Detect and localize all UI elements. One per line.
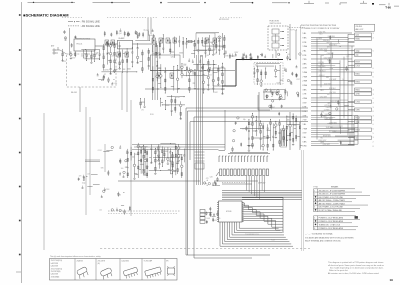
tuning dense core [137,146,181,175]
svg-text:R405: R405 [356,74,360,76]
svg-text:Q80: Q80 [171,57,174,59]
legend DIP package sketch [144,260,163,279]
svg-text:5 BL: 5 BL [303,33,307,35]
front end varicap parts [97,69,118,84]
svg-text:EACH TERMINAL AND CHASSIS GROU: EACH TERMINAL AND CHASSIS GROUND. [305,239,342,242]
controller left connector cells [200,210,205,224]
svg-text:C299: C299 [207,64,211,66]
svg-text:AM OSC 990kHz - 2.1MHz TRACK: AM OSC 990kHz - 2.1MHz TRACK [319,202,346,205]
detector right parts [181,55,211,76]
svg-text:2SA733: 2SA733 [77,260,83,263]
svg-text:LED POWER - 4.5V (TYP) LINE: LED POWER - 4.5V (TYP) LINE [319,207,344,209]
connector wiring harness [311,33,355,146]
fan connector labels [245,233,275,241]
svg-text:Q3 YEL: Q3 YEL [318,62,324,64]
svg-text:AM OSC 990kHz - 2.1MHz TRACK: AM OSC 990kHz - 2.1MHz TRACK [319,199,346,202]
svg-text:5: 5 [373,133,374,135]
svg-text:: FM SIGNAL LINE: : FM SIGNAL LINE [81,21,101,24]
mid rail wires [145,70,235,90]
svg-text:68 BLU: 68 BLU [319,75,325,77]
svg-text:L42: L42 [99,209,102,211]
upper left small parts [64,30,76,47]
svg-text:D21: D21 [209,74,212,76]
svg-text:0: 0 [373,124,374,126]
power supply components [248,113,302,152]
LED digit cells row [216,169,269,176]
svg-text:7 RD: 7 RD [303,59,308,61]
buffer stage parts [99,188,130,215]
svg-text:TUNING LED : LIT AT LOCK: TUNING LED : LIT AT LOCK [319,224,341,227]
voltage table upper [314,189,371,212]
svg-text:DISPLAY: DISPLAY [258,182,266,185]
svg-text:473: 473 [79,176,82,178]
svg-text:L80: L80 [200,56,203,58]
svg-text:5: 5 [373,51,374,53]
legend FM signal line [68,21,100,24]
display left drivers [195,55,205,185]
svg-text:R182 WHT: R182 WHT [324,118,332,120]
svg-text:C753: C753 [356,66,360,68]
svg-text:D56: D56 [183,64,186,66]
svg-text:C989: C989 [220,46,224,48]
svg-text:R914 BLK: R914 BLK [329,131,338,133]
AM RF right parts [284,65,300,97]
svg-text:4 OR: 4 OR [303,68,308,70]
svg-text:3: 3 [373,94,374,96]
svg-text:CN-J101: CN-J101 [356,26,363,28]
package legend box [50,259,178,281]
legend parts list cell [51,260,63,278]
display feed lines [132,145,225,150]
svg-text:C802 GRY: C802 GRY [318,140,327,142]
svg-text:6: 6 [373,128,374,130]
svg-text:(B): (B) [98,263,101,265]
svg-text:Q34 GRY: Q34 GRY [323,144,331,146]
svg-text:104p: 104p [82,182,86,184]
svg-text:104p: 104p [356,122,360,124]
svg-text:FE-101: FE-101 [71,92,77,94]
svg-text:LA1231N: LA1231N [51,265,59,268]
svg-text:C687: C687 [214,92,218,94]
legend trimmer package sketch [166,261,175,277]
middle wire color labels [319,34,334,144]
system controller IC101 [219,201,243,222]
svg-text:L91: L91 [141,110,144,112]
display driver parts [203,177,220,186]
svg-text:this model depending on its de: this model depending on its destination … [330,267,384,270]
svg-text:104K YEL: 104K YEL [326,127,334,129]
controller left parts [205,207,220,224]
AM IC dashed box [264,90,285,100]
svg-text:: AM SIGNAL LINE: : AM SIGNAL LINE [81,25,101,28]
svg-text:8 WH: 8 WH [303,85,308,87]
svg-text:2SK168(E): 2SK168(E) [51,276,60,278]
FM front end block FE101 [70,28,96,55]
svg-text:68p: 68p [243,119,246,121]
svg-text:R24 BLK: R24 BLK [323,40,331,42]
controller right wire fan [242,197,283,233]
antenna input terminals [51,45,60,55]
svg-text:6 RD: 6 RD [303,146,308,148]
svg-text:2 WH: 2 WH [303,81,308,83]
notes dashed annotation [305,233,354,243]
svg-text:3: 3 [373,115,374,117]
svg-text:— · — : VOLTAGE AT NO SIGNAL: — · — : VOLTAGE AT NO SIGNAL [305,233,333,236]
svg-text:C959: C959 [232,56,236,58]
AM IC parts [265,89,282,99]
svg-text:4: 4 [373,89,374,91]
legend AM signal line [68,25,100,28]
svg-text:LA1231N: LA1231N [51,262,59,265]
AF output bus [108,181,200,211]
svg-text:TO TUNING P.C.B TO POWER P.C: TO TUNING P.C.B TO POWER P.C.B TO DISPLA… [301,27,340,30]
svg-text:L38: L38 [111,56,114,58]
svg-text:5 WH: 5 WH [303,72,308,74]
svg-text:D79: D79 [63,61,66,63]
upper middle components [152,34,229,58]
AM converter components [253,63,283,86]
svg-text:R457 GRY: R457 GRY [319,49,328,51]
svg-text:6: 6 [373,68,374,70]
svg-text:Q87: Q87 [146,166,149,168]
svg-text:8: 8 [373,146,374,148]
svg-text:C542: C542 [145,30,149,32]
svg-text:2SC1740(R,S): 2SC1740(R,S) [51,260,63,262]
svg-text:AM LOOP: AM LOOP [356,28,365,31]
svg-text:IC101: IC101 [226,211,232,213]
svg-text:Q82: Q82 [210,177,213,179]
legend TO-92 package sketch [76,260,89,280]
svg-text:R307: R307 [106,69,110,71]
svg-text:LA1231N: LA1231N [51,273,59,276]
controller data bus lines [222,191,302,200]
svg-text:D38 BLK: D38 BLK [329,88,337,90]
svg-text:C885: C885 [356,110,360,112]
svg-text:IF OUT 10.7MHz / 450kHz SEL: IF OUT 10.7MHz / 450kHz SEL [319,210,343,212]
table boundary lines [300,25,302,148]
svg-text:REMARK: REMARK [331,186,339,189]
svg-text:6: 6 [314,207,315,209]
svg-text:2 BL: 2 BL [303,137,307,139]
svg-text:3: 3 [373,102,374,104]
front end wires [60,46,105,54]
svg-text:This diagram is printed with a: This diagram is printed with a PCB patte… [328,261,383,264]
svg-text:Q72: Q72 [346,56,349,58]
svg-text:4: 4 [373,38,374,40]
svg-text:R201: R201 [71,57,75,59]
harness wire row labels [318,32,339,147]
muting circuit box [186,33,219,50]
bottom long feed wires [186,255,270,258]
transistor stage box [213,68,225,86]
svg-text:POWER B+ 13.2V REGULATED: POWER B+ 13.2V REGULATED [319,217,344,220]
bottom dashed rail [100,247,310,249]
svg-text:R339: R339 [272,90,276,92]
svg-text:L10 WHT: L10 WHT [329,79,336,81]
svg-text:C263: C263 [105,189,109,191]
svg-text:7 WH: 7 WH [303,76,308,78]
svg-text:104p YEL: 104p YEL [318,32,325,34]
svg-text:22p: 22p [356,55,359,57]
svg-text:R374: R374 [356,130,360,132]
svg-text:POWER B+ 13.2V REGULATED: POWER B+ 13.2V REGULATED [319,227,344,230]
svg-text:22 RED: 22 RED [324,109,331,111]
svg-text:Q59: Q59 [206,55,209,57]
svg-text:10: 10 [356,138,358,140]
svg-text:2: 2 [314,194,315,196]
B plus supply bus [222,59,291,86]
voltage notes header [314,186,340,189]
svg-text:all electrical parts. Some par: all electrical parts. Some parts shown h… [328,264,384,267]
svg-text:R822 BLU: R822 BLU [329,44,338,46]
svg-text:L43: L43 [87,174,90,176]
bus filter caps [243,52,301,60]
left page margin line [16,2,21,283]
svg-text:L91: L91 [287,54,290,56]
svg-text:R605: R605 [356,90,360,92]
svg-text:8: 8 [314,228,315,230]
IF wires [105,18,152,44]
function switch dashed box S101 [268,21,288,51]
svg-text:7 WH: 7 WH [303,128,308,130]
IF filter block FL101 [118,37,133,49]
left tuning parts [98,145,129,177]
svg-text:Q63: Q63 [84,57,87,59]
left small parts [78,174,100,189]
svg-text:YEL: YEL [320,137,323,139]
svg-text:D66 RED: D66 RED [328,36,336,38]
segment bus lower [214,181,258,184]
svg-text:R968 RED: R968 RED [323,135,332,137]
svg-text:4 WH: 4 WH [303,98,308,100]
interconnect table header notes [301,24,375,31]
IF AF lower components [150,59,223,94]
svg-text:This (●) mark have important i: This (●) mark have important influences … [50,255,101,258]
svg-text:2: 2 [373,141,374,143]
svg-text:LA1231N: LA1231N [122,260,130,263]
power input parts [232,117,254,152]
svg-text:47p YEL: 47p YEL [329,92,336,94]
power supply section [240,92,290,150]
svg-text:D63 RED: D63 RED [318,66,326,68]
svg-text:IF AMP: IF AMP [119,37,126,40]
switch to connector dashes [289,28,305,32]
table nested bus staircase [322,116,358,145]
svg-text:R554: R554 [356,118,360,120]
svg-text:C451: C451 [113,83,117,85]
FM detector block [151,53,181,71]
AM switch transistor [218,33,223,50]
svg-text:2SC1815 (Y) - IF COUNT BUFFER: 2SC1815 (Y) - IF COUNT BUFFER [319,190,346,192]
svg-text:YEL: YEL [321,111,324,113]
right edge vertical pair [302,150,304,251]
svg-text:2 BL: 2 BL [303,50,307,52]
AM section dashed enclosure [254,63,283,84]
svg-text:Q92 GRY: Q92 GRY [320,96,328,98]
svg-text:TO P.C.B: TO P.C.B [290,30,298,32]
svg-text:POWER B+ 13.2V REGULATED: POWER B+ 13.2V REGULATED [319,220,344,223]
svg-text:473: 473 [206,178,209,180]
svg-text:R735: R735 [176,97,180,99]
legend TO-92L package sketch [98,261,114,280]
svg-text:FE-101: FE-101 [77,44,83,46]
tuning control components [125,143,185,180]
IF triple vertical [153,45,158,100]
dotted control line [222,182,247,184]
FM signal dotted bus [62,17,242,19]
connector left pin labels [303,33,308,148]
legend SIP package sketch [122,260,139,279]
harness wire labels [321,35,350,144]
regulator parts column [266,89,282,116]
svg-text:SWITCH S101: SWITCH S101 [270,23,282,25]
svg-text:2SC2878(B): 2SC2878(B) [51,271,61,273]
svg-text:1 BL: 1 BL [303,124,307,126]
second dotted rail [108,213,178,215]
svg-text:R149: R149 [150,114,154,116]
svg-text:Refer to the parts list.: Refer to the parts list. [329,269,348,272]
top registration ruler [28,1,400,6]
svg-text:Q25: Q25 [356,35,359,37]
svg-text:R86 BLU: R86 BLU [319,70,327,72]
svg-text:T-80: T-80 [385,5,391,9]
svg-text:Q84: Q84 [119,33,122,35]
voltage table lower [314,216,361,230]
svg-text:C44 BLK: C44 BLK [327,53,335,55]
svg-text:MUTING SW: MUTING SW [219,19,229,21]
svg-text:P. NO: P. NO [314,187,319,189]
svg-text:TC9157AP: TC9157AP [144,260,153,263]
svg-text:6: 6 [373,111,374,113]
upper label row parts [104,28,154,40]
svg-text:R397: R397 [234,52,238,54]
svg-text:C393 RED: C393 RED [329,122,338,124]
svg-text:R770: R770 [242,128,246,130]
svg-text:6: 6 [373,72,374,74]
svg-text:C874: C874 [98,150,102,152]
svg-text:22p: 22p [126,167,129,169]
footnote paragraph [328,261,384,275]
svg-text:■SCHEMATIC DIAGRAM: ■SCHEMATIC DIAGRAM [23,12,69,17]
svg-text:3: 3 [373,33,374,35]
svg-text:10: 10 [342,79,344,81]
svg-text:R727: R727 [356,62,360,64]
LED segment pin row [219,152,270,162]
svg-text:3: 3 [373,107,374,109]
switch drop wires [276,24,296,60]
svg-text:ANT: ANT [51,45,54,48]
svg-text:FM FRONT END: FM FRONT END [76,38,91,40]
svg-text:6: 6 [373,77,374,79]
svg-text:0: 0 [373,98,374,100]
MPX decoder components [140,95,185,119]
svg-text:1 WH: 1 WH [303,46,308,48]
svg-text:100K BLK: 100K BLK [324,83,332,85]
front end RF components [61,49,100,64]
FM front end shield dashed box [67,54,117,112]
svg-text:4: 4 [373,120,374,122]
AM feed L wire [258,95,270,110]
svg-text:R840: R840 [356,39,360,41]
svg-text:2SC1740(R,S): 2SC1740(R,S) [51,268,63,270]
svg-text:P109: P109 [271,239,275,241]
svg-text:C756: C756 [356,102,360,104]
svg-text:1: 1 [314,190,315,192]
IF transformer cans [105,38,217,78]
svg-text:R356: R356 [356,82,360,84]
svg-text:All resistors are in ohm, K=10: All resistors are in ohm, K=1000 ohm. 1/… [328,272,380,275]
controller IC pin stubs [217,203,244,222]
svg-text:VOLTAGES ARE MEASURED WITH VTV: VOLTAGES ARE MEASURED WITH VTVM (DC) BET… [305,237,354,240]
connector right terminal column [355,33,372,140]
mid horizontal feed lines [85,108,308,258]
svg-text:19: 19 [390,278,394,282]
bus decoupling caps [242,54,253,59]
svg-text:100p: 100p [356,51,360,53]
controller bottom wire fan [220,222,293,246]
svg-text:D57: D57 [214,53,217,55]
svg-text:C217: C217 [296,79,300,81]
long vertical feeds left [44,72,131,250]
power transformer T101 [281,129,287,147]
svg-text:104p WHT: 104p WHT [324,57,332,59]
digit row drop wires [247,176,265,200]
IF stage components [101,41,150,75]
svg-text:2SC1815 (Y) - IF COUNT BUFFER: 2SC1815 (Y) - IF COUNT BUFFER [319,194,346,196]
svg-text:22: 22 [104,70,106,72]
svg-text:100: 100 [121,168,124,170]
connector pin number ticks [373,33,374,148]
svg-text:3: 3 [373,137,374,139]
svg-text:LED POWER - 4.5V (TYP) LINE: LED POWER - 4.5V (TYP) LINE [319,197,344,199]
svg-text:5: 5 [314,218,315,220]
bus left parts [225,50,238,59]
